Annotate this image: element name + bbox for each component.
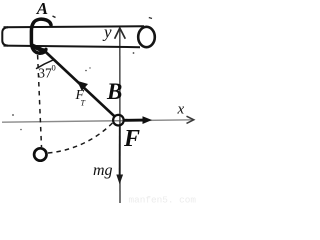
speckle near A (53, 16, 56, 18)
svg-text:mg: mg (93, 162, 113, 179)
svg-text:x: x (177, 102, 185, 118)
angle arc 37deg (36, 60, 54, 69)
svg-text:0: 0 (52, 63, 56, 73)
dashed arc (pendulum path) (48, 122, 114, 153)
tension arrowhead on AB (77, 81, 88, 91)
svg-text:37: 37 (38, 65, 52, 80)
svg-text:F: F (123, 126, 140, 152)
rod top edge (4, 25, 145, 28)
speckle above rod right (149, 18, 152, 19)
speckle below rod right of y-axis (133, 52, 135, 54)
speckle dots near FT (85, 70, 87, 72)
y-axis arrowhead (115, 28, 126, 39)
svg-text:B: B (106, 79, 122, 104)
string AB (43, 49, 115, 116)
force F arrow (bold, along +x) (124, 119, 145, 122)
rod right end ellipse (138, 27, 155, 47)
rod left end cap (2, 27, 8, 45)
origin circle at B (113, 115, 124, 126)
svg-text:T: T (81, 99, 86, 108)
x-axis (2, 120, 193, 122)
speckle left of x-axis (12, 114, 14, 116)
ball circle at bottom of dashed vertical (34, 148, 46, 160)
dashed vertical line below A (38, 55, 42, 147)
svg-text:y: y (102, 23, 112, 42)
speckle below x-axis left (20, 129, 22, 131)
rod bottom edge (4, 46, 141, 48)
ring at A (31, 19, 51, 53)
force mg arrow (down) (119, 126, 121, 177)
svg-text:A: A (36, 0, 48, 18)
svg-text:manfen5. com: manfen5. com (129, 195, 197, 206)
x-axis arrowhead (187, 116, 194, 123)
y-axis (119, 29, 121, 203)
ring bottom knot (33, 46, 44, 51)
